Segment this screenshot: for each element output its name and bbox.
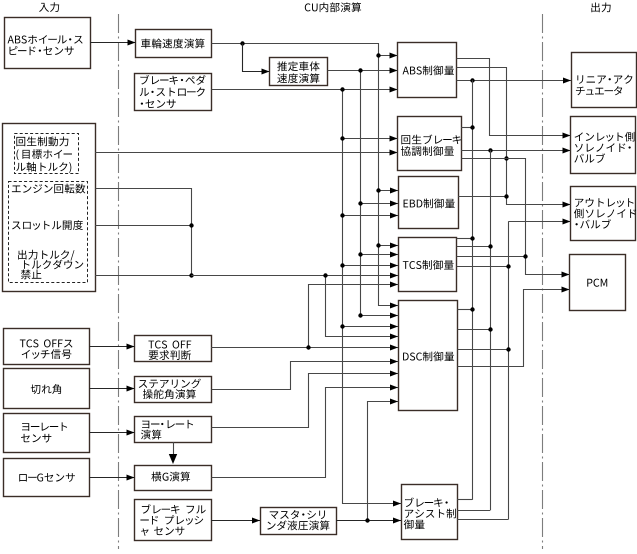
arrow pedal stroke into EBD — [390, 213, 398, 219]
junction est body speed/DSC corner — [358, 313, 362, 317]
block steering angle calculation — [135, 377, 212, 403]
junction est body speed/TCS tap — [358, 252, 362, 256]
junction regen output3/outlet line — [504, 156, 508, 160]
junction TCS/PCM bus — [523, 254, 527, 258]
junction output torque/engine bus — [189, 273, 193, 277]
wire DSC output 1 to linear bus — [458, 309, 473, 311]
junction TCS/inlet bus — [488, 244, 492, 248]
wire yaw rate calc down to lateral G calc — [173, 442, 175, 455]
text TCS OFF request judgement line2 — [149, 350, 191, 360]
wire est body speed into ABS (pin 2) — [361, 70, 398, 72]
text steering angle input — [31, 384, 61, 394]
text steering angle calculation line1 — [139, 379, 201, 389]
junction engine bus/DSC branch — [323, 273, 327, 277]
junction pedal stroke/ABS tap — [340, 87, 344, 91]
arrow master cylinder into DSC — [390, 399, 398, 405]
block master cylinder pressure calculation — [261, 508, 337, 535]
junction EBD/outlet line — [504, 194, 508, 198]
wire pedal stroke into EBD (pin 3) — [343, 215, 399, 217]
text TCS OFF switch line2 — [22, 349, 72, 359]
wire lateral G calc into DSC (pin 8) — [212, 388, 399, 478]
block outlet solenoid valve — [571, 187, 636, 241]
wire regen coordination output 3 to PCM bus — [462, 159, 570, 275]
text ABS control quantity — [403, 65, 454, 75]
block brake fluid pressure sensor — [135, 500, 212, 541]
text PCM — [587, 279, 607, 287]
block regenerative input group (outer) — [3, 124, 96, 292]
junction pedal stroke/DSC tap — [340, 324, 344, 328]
wire TCS OFF switch to judgement — [90, 346, 135, 348]
wire low-G sensor to lateral G calc — [90, 477, 135, 479]
text throttle opening — [12, 220, 83, 230]
arrow into TCS OFF judgement — [127, 344, 135, 350]
wire est body speed into EBD (pin 2) — [361, 203, 399, 205]
junction TCS/outlet bus — [506, 264, 510, 268]
text brake fluid pressure sensor — [140, 504, 205, 536]
text EBD control quantity — [404, 198, 455, 208]
arrow TCS OFF into DSC — [390, 345, 398, 351]
wire pedal stroke into regen coordination (pin 1) — [343, 138, 398, 140]
wire brake assist output 1 to linear bus — [457, 499, 472, 501]
wire yaw rate calc into DSC (pin 7) — [212, 374, 399, 428]
wire yaw rate sensor to yaw rate calc — [90, 432, 135, 434]
text regen coordination control quantity — [401, 134, 461, 155]
arrow into wheel speed calc — [128, 40, 136, 46]
junction TCS/linear bus — [470, 236, 474, 240]
junction TCS OFF/TCS branch — [306, 345, 310, 349]
text brake assist control quantity — [404, 497, 456, 529]
text yaw rate calculation — [141, 420, 193, 440]
wire DSC output 3 to outlet bus — [458, 349, 509, 351]
text TCS OFF switch line1 — [20, 339, 73, 347]
wire outlet bus to outlet valve (pin 2) — [508, 221, 570, 223]
wire throttle opening output — [95, 225, 191, 227]
label CU internal calculation zone — [305, 2, 361, 12]
wire branch to estimated body speed calc — [243, 44, 270, 72]
wire TCS output 2 to inlet bus — [457, 246, 491, 248]
wire regen coordination output 2 to inlet valve (pin 2) — [461, 150, 571, 152]
text torque down line2 — [24, 260, 83, 270]
block TCS control quantity — [399, 238, 457, 292]
arrow yaw rate into lateral G calc — [169, 454, 177, 464]
arrow ABS into inlet valve — [563, 133, 571, 139]
arrow into estimated body speed calc — [262, 69, 270, 75]
net linear actuator bus (vertical) — [472, 80, 474, 500]
wire DSC output 2 to inlet bus — [458, 329, 491, 331]
junction pedal stroke/EBD tap — [340, 213, 344, 217]
net inlet valve bus (vertical) — [490, 150, 492, 510]
wire wheel speed into TCS (pin 1) — [378, 245, 398, 247]
wire ABS control output C to linear actuator — [457, 80, 572, 82]
arrow wheel speed into DSC (pin 1) — [390, 303, 398, 309]
wire pedal stroke into TCS (pin 3) — [343, 265, 399, 267]
arrow wheel speed into EBD — [390, 188, 398, 194]
wire DSC output 4 to PCM (pin 2) — [458, 290, 570, 367]
junction DSC/inlet bus — [488, 327, 492, 331]
block inlet solenoid valve — [571, 117, 636, 174]
text engine speed — [12, 184, 85, 194]
text regenerative braking force — [16, 136, 72, 172]
junction master cylinder/DSC branch — [365, 518, 369, 522]
junction pedal stroke/regen tap — [340, 136, 344, 140]
junction linear actuator bus top — [470, 78, 474, 82]
junction pedal stroke/TCS tap — [340, 263, 344, 267]
text yaw rate sensor — [21, 422, 67, 442]
arrow regen/TCS into PCM (pin 1) — [562, 272, 570, 278]
wire TCS OFF branch into TCS (pin 5) — [309, 285, 399, 348]
arrow yaw rate into DSC — [390, 371, 398, 377]
wire steering angle input to steering calc — [90, 388, 135, 390]
arrow into outlet valve pin 2 — [563, 219, 571, 225]
arrow est body speed into ABS control — [390, 68, 398, 74]
arrow pedal stroke into ABS control — [390, 87, 398, 93]
arrow into lateral G calc — [127, 475, 135, 481]
arrow est body speed into TCS — [390, 252, 398, 258]
arrow est body speed into EBD — [390, 201, 398, 207]
text lateral G calculation — [151, 472, 190, 482]
wire regen coordination output 1 to linear bus — [461, 127, 472, 129]
block DSC control quantity — [399, 301, 458, 411]
wire output torque / torque-down output — [95, 275, 191, 277]
wire EBD output to outlet line — [458, 196, 506, 198]
arrow regen into inlet valve — [563, 148, 571, 154]
arrow into master cylinder calc — [252, 518, 260, 524]
block steering angle input — [4, 369, 90, 409]
wire brake assist output 2 to inlet bus — [457, 510, 490, 512]
arrow master cylinder into brake assist — [393, 518, 401, 524]
text TCS OFF request judgement line1 — [148, 340, 191, 348]
arrow pedal stroke into TCS — [390, 263, 398, 269]
wire engine speed output — [96, 189, 192, 276]
junction wheel speed/ABS tap — [376, 53, 380, 57]
block brake pedal stroke sensor — [135, 74, 212, 111]
wire steering calc into DSC (pin 6) — [212, 362, 399, 390]
text ABS wheel speed sensor — [8, 35, 83, 55]
wire TCS output 4 to outlet bus — [457, 266, 509, 268]
block TCS OFF switch signal — [4, 329, 90, 365]
arrow pedal stroke into DSC — [390, 324, 398, 330]
text brake pedal stroke sensor — [140, 75, 206, 108]
junction est body speed/ABS tap — [358, 68, 362, 72]
wire est body speed into TCS (pin 2) — [361, 254, 399, 256]
wire master cylinder calc into brake assist (pin 2) — [336, 520, 401, 522]
junction DSC/outlet bus — [506, 347, 510, 351]
junction wheel speed/EBD tap — [376, 188, 380, 192]
text inlet solenoid valve — [574, 132, 634, 163]
block TCS OFF request judgement — [135, 336, 212, 362]
block ABS wheel speed sensor — [5, 18, 91, 69]
arrow TCS OFF into TCS — [390, 282, 398, 288]
block PCM — [570, 255, 626, 311]
junction regen/linear bus — [470, 125, 474, 129]
text TCS control quantity — [403, 260, 454, 270]
wire pedal stroke into ABS (pin 3) — [343, 89, 398, 91]
wire estimated body speed output bus — [328, 71, 399, 316]
wire engine bus into TCS (pin 4) — [191, 275, 398, 277]
arrow DSC into PCM — [562, 287, 570, 293]
wire TCS output 3 to PCM bus — [457, 256, 526, 258]
wire ABS control output A to inlet valve (pin 1) — [457, 59, 571, 136]
wire ABS wheel sensor to wheel speed calc — [90, 42, 136, 44]
block lateral G calculation — [135, 466, 212, 491]
block brake assist control quantity — [402, 485, 458, 540]
wire brake fluid sensor to master cylinder calc — [211, 520, 260, 522]
text estimated body speed line2 — [277, 73, 319, 83]
text linear actuator — [576, 75, 633, 96]
wire TCS output 1 to linear bus — [457, 238, 473, 240]
junction inlet bus top — [488, 148, 492, 152]
arrow ABS into outlet valve — [563, 202, 571, 208]
block low-G sensor — [4, 459, 90, 497]
junction wheel speed branch — [240, 41, 244, 45]
wire master cylinder branch into DSC (pin 9) — [368, 402, 399, 521]
block yaw rate sensor — [4, 414, 90, 453]
text outlet solenoid valve — [574, 198, 636, 229]
block ABS control quantity — [398, 43, 457, 98]
arrow pedal stroke into brake assist (pin 1) — [393, 501, 401, 507]
wire TCS OFF judgement into DSC (pin 5) — [211, 347, 398, 349]
arrow pedal stroke into regen coordination — [390, 136, 398, 142]
junction DSC/linear bus — [470, 307, 474, 311]
net outlet valve bus (vertical) — [508, 222, 510, 520]
junction wheel speed/TCS tap — [376, 243, 380, 247]
arrow engine bus into DSC — [390, 334, 398, 340]
block estimated body speed calculation — [270, 58, 328, 86]
arrow wheel speed into ABS control — [390, 53, 398, 59]
arrow regen braking force into regen coordination — [390, 150, 398, 156]
block EBD control quantity — [399, 177, 459, 229]
block regenerative brake coordination control quantity — [398, 117, 462, 171]
text wheel speed calculation — [141, 39, 205, 49]
arrow lateral G into DSC — [390, 385, 398, 391]
wire pedal stroke into DSC (pin 3) — [343, 326, 399, 328]
junction est body speed/EBD tap — [358, 201, 362, 205]
text estimated body speed line1 — [277, 61, 319, 71]
wire brake assist output 3 to outlet bus — [457, 519, 508, 521]
arrow into steering angle calc — [127, 386, 135, 392]
arrow engine bus into TCS — [390, 273, 398, 279]
block engine signals (dashed) — [9, 182, 88, 283]
wire engine bus branch into DSC (pin 4) — [326, 276, 399, 337]
text master cylinder calc line1 — [270, 510, 325, 519]
input/CU zone separator (dash-dot) — [118, 14, 120, 549]
block regenerative braking force (dashed) — [15, 134, 79, 174]
wire wheel speed calc output bus — [212, 44, 399, 306]
wire regenerative braking force input to regen coordination (pin 2) — [95, 152, 398, 154]
text DSC control quantity — [403, 351, 454, 361]
label input zone — [39, 2, 59, 12]
text low-G sensor — [19, 473, 75, 482]
wire brake pedal stroke output bus — [212, 90, 402, 504]
block yaw rate calculation — [135, 417, 212, 443]
wire wheel speed into ABS control (pin 1) — [378, 55, 398, 57]
arrow est body speed into DSC (pin 2) — [390, 313, 398, 319]
text master cylinder calc line2 — [267, 520, 329, 530]
arrow into yaw rate calc — [127, 430, 135, 436]
arrow into linear actuator — [563, 78, 571, 84]
text output torque / torque down — [18, 250, 74, 261]
text torque down prohibit — [21, 269, 41, 279]
block wheel speed calculation — [136, 30, 212, 58]
arrow wheel speed into TCS — [390, 243, 398, 249]
wire ABS control output B to outlet valve (pin 1) — [457, 68, 571, 205]
text steering angle calculation line2 — [143, 389, 196, 399]
CU/output zone separator (dash-dot) — [542, 14, 544, 549]
block linear actuator — [572, 53, 637, 108]
label output zone — [591, 2, 610, 12]
arrow steering angle into DSC — [390, 359, 398, 365]
junction throttle/engine bus — [189, 223, 193, 227]
wire wheel speed into EBD (pin 1) — [378, 190, 398, 192]
